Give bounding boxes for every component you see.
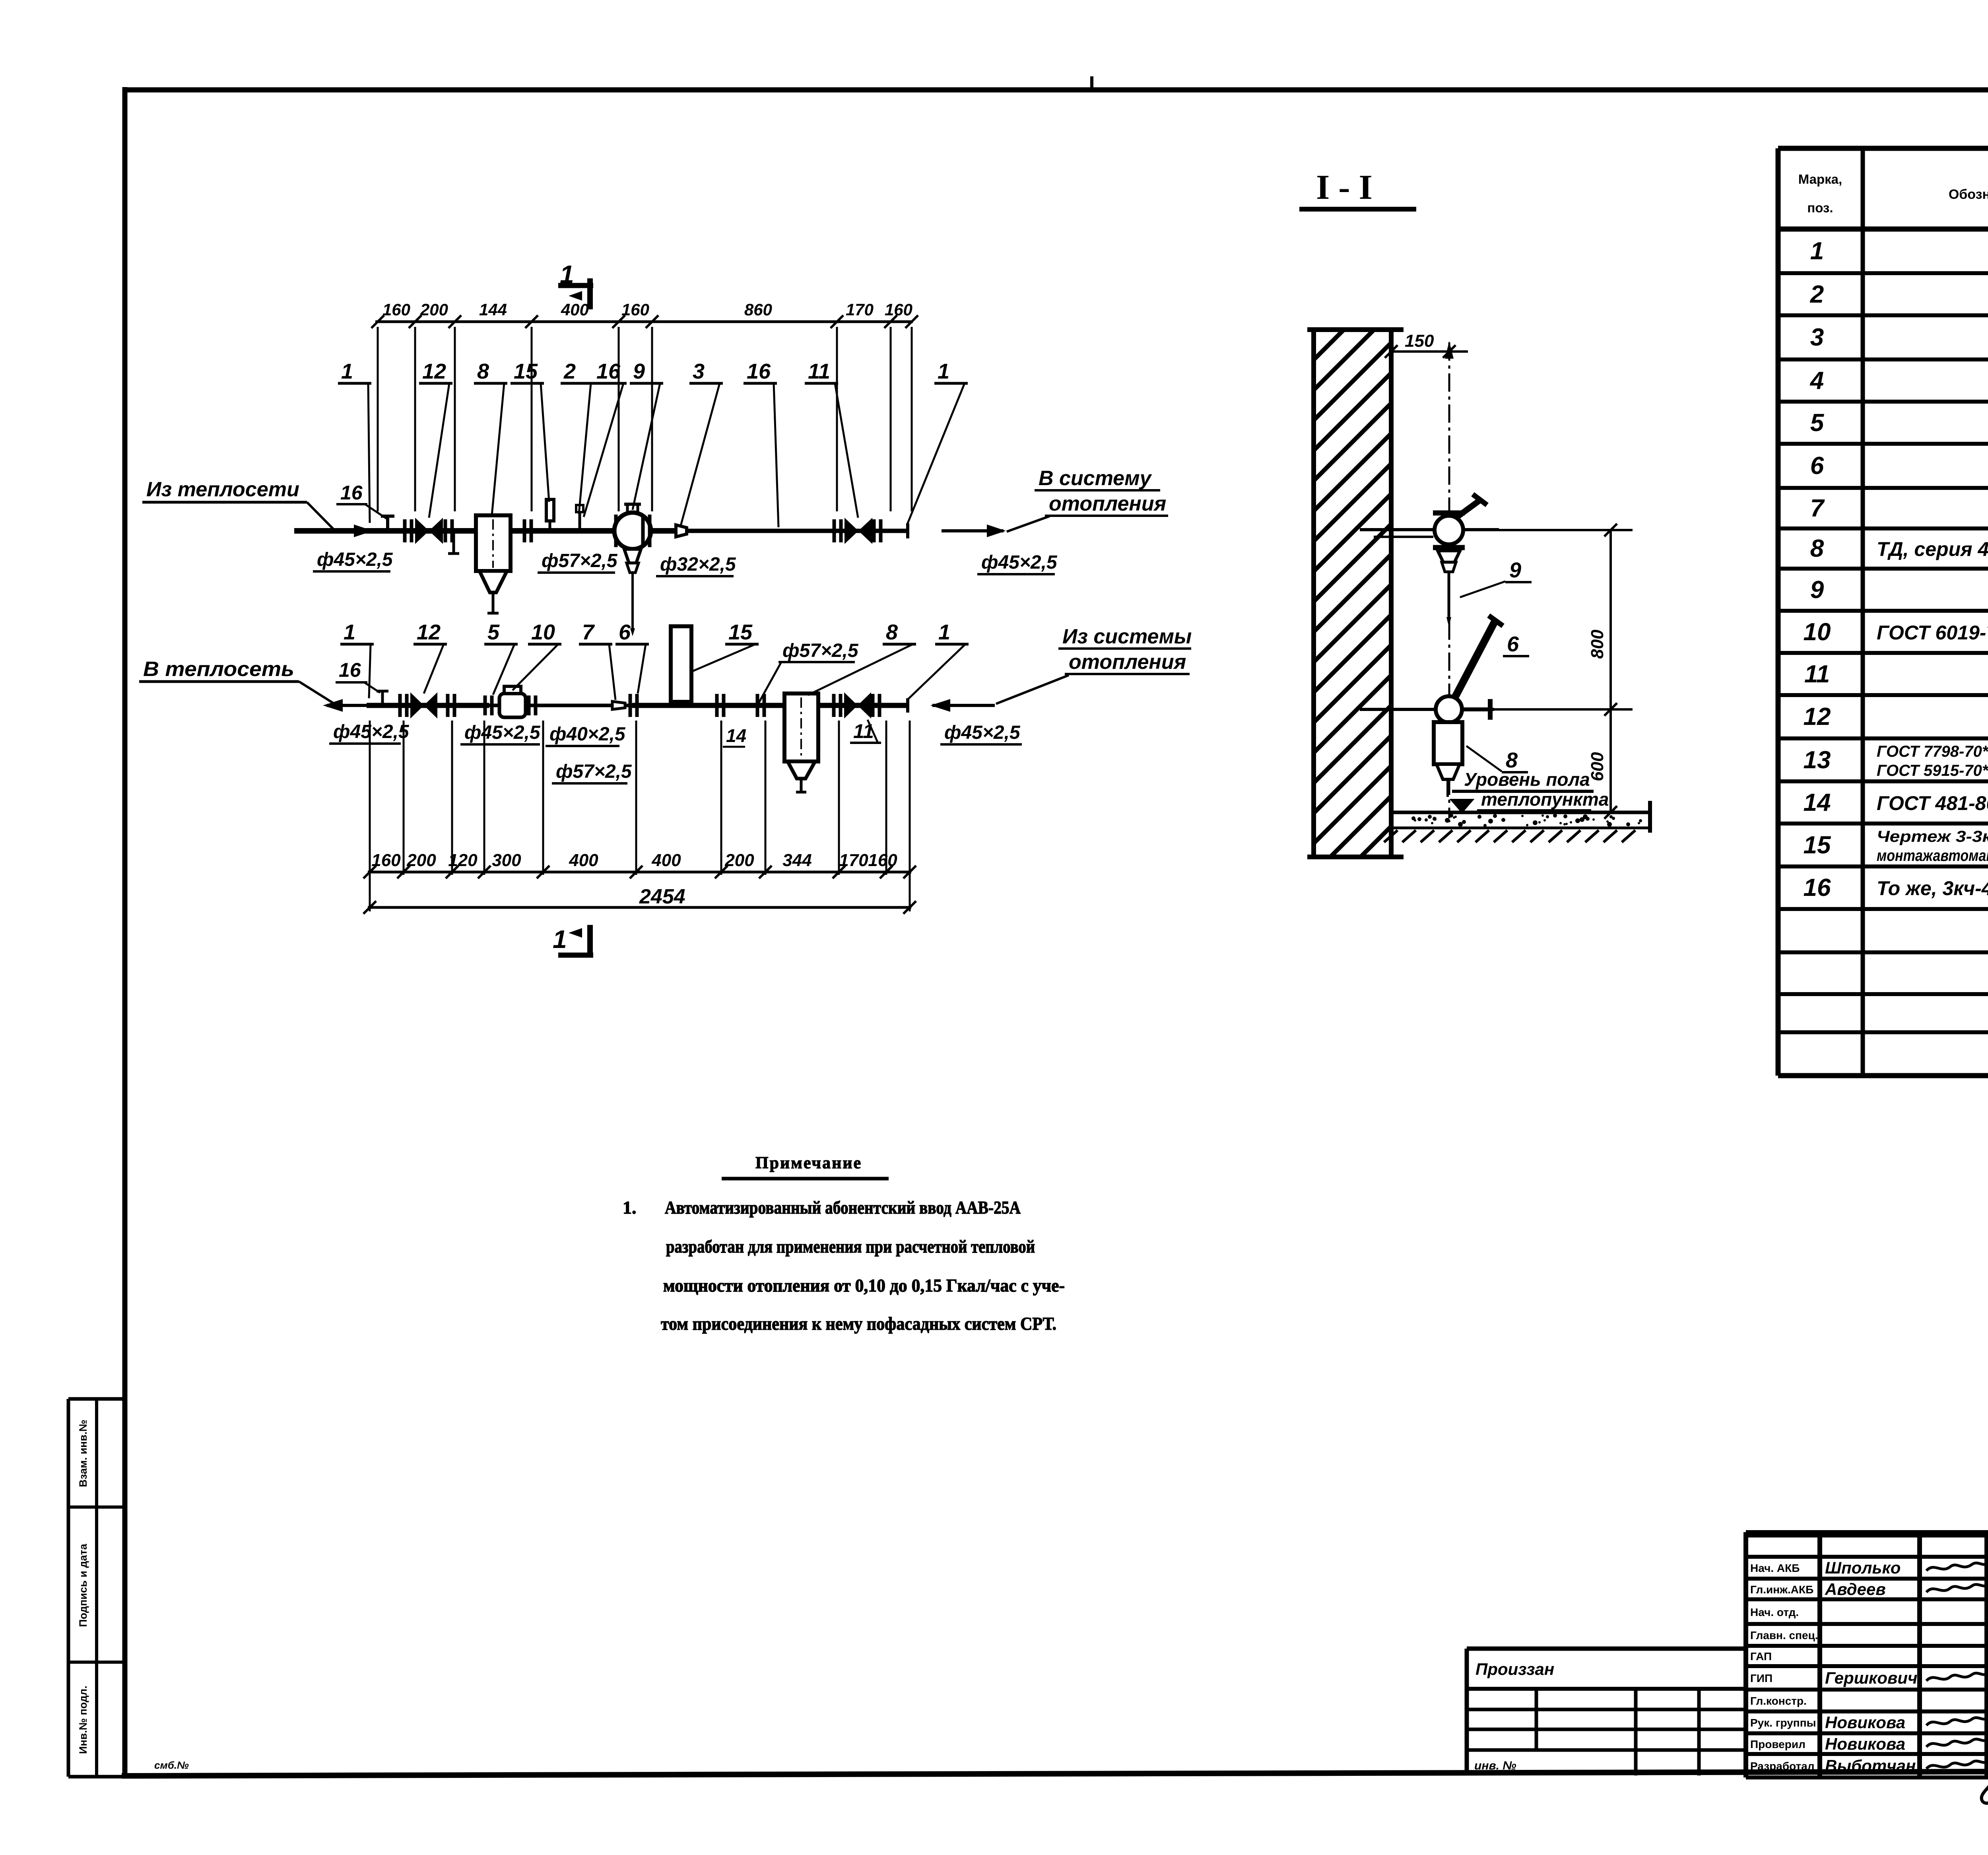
lower pipe end view line — [1360, 708, 1494, 711]
drawing sheet outer frame — [122, 87, 128, 1778]
svg-text:Произзан: Произзан — [1475, 1660, 1554, 1678]
svg-text:170: 170 — [846, 300, 874, 319]
svg-text:16: 16 — [1804, 874, 1831, 901]
svg-text:150: 150 — [1405, 331, 1434, 351]
svg-text:200: 200 — [406, 851, 436, 870]
svg-text:8: 8 — [886, 620, 898, 644]
svg-text:Нач. отд.: Нач. отд. — [1750, 1606, 1799, 1618]
svg-text:7: 7 — [1810, 495, 1825, 522]
svg-text:Гл.инж.АКБ: Гл.инж.АКБ — [1750, 1583, 1813, 1596]
svg-text:300: 300 — [492, 851, 521, 870]
svg-text:разработан для применения при: разработан для применения при расчетной … — [666, 1236, 1035, 1257]
svg-text:10: 10 — [531, 620, 555, 644]
svg-text:ГАП: ГАП — [1750, 1650, 1772, 1663]
svg-text:Разработал: Разработал — [1750, 1760, 1815, 1772]
valve 12 on return pipe — [410, 692, 424, 719]
svg-text:ф40×2,5: ф40×2,5 — [549, 724, 626, 745]
svg-text:600: 600 — [1588, 752, 1607, 781]
svg-text:5: 5 — [1810, 409, 1825, 437]
svg-text:6: 6 — [619, 620, 631, 644]
dirt trap 8 on return pipe — [784, 693, 818, 761]
svg-text:160: 160 — [382, 300, 410, 319]
section upper valve 9 handle — [1456, 500, 1480, 518]
svg-text:В теплосеть: В теплосеть — [143, 658, 294, 681]
regulator sensor needle into return pipe — [631, 573, 634, 628]
flange pair — [641, 515, 645, 547]
svg-text:ф45×2,5: ф45×2,5 — [317, 549, 393, 570]
svg-text:Примечание: Примечание — [755, 1154, 862, 1172]
section upper valve 9 bottom cone and thermometer — [1438, 551, 1460, 562]
svg-text:400: 400 — [561, 300, 589, 319]
svg-text:То же, 3кч-46-70: То же, 3кч-46-70 — [1877, 877, 1988, 899]
svg-text:Обозначение: Обозначение — [1949, 187, 1988, 202]
svg-text:11: 11 — [853, 720, 874, 742]
svg-text:800: 800 — [1588, 629, 1607, 659]
svg-text:12: 12 — [1804, 703, 1831, 730]
tap fitting 16 on return pipe — [381, 691, 384, 705]
section lower valve body — [1436, 696, 1462, 723]
wall bottom line — [1307, 855, 1404, 859]
upper pipe end view line — [1360, 528, 1499, 531]
svg-text:отопления: отопления — [1069, 651, 1186, 674]
section upper valve 9 body — [1435, 516, 1463, 544]
svg-text:400: 400 — [569, 851, 598, 870]
section vertical centerline — [1448, 342, 1450, 818]
specification table grid — [1776, 148, 1781, 1076]
svg-text:смб.№: смб.№ — [154, 1759, 189, 1771]
svg-text:монтажавтоматика ММСС ССР: монтажавтоматика ММСС ССР — [1877, 847, 1988, 864]
svg-text:1: 1 — [553, 925, 567, 954]
thermometer pocket 15 on supply pipe — [546, 499, 554, 521]
svg-text:14: 14 — [726, 725, 746, 746]
thermowell embedded part on return pipe — [671, 626, 691, 702]
section right dimension line — [1609, 530, 1612, 812]
svg-text:12: 12 — [417, 620, 441, 644]
floor slab with speckles — [1391, 811, 1649, 814]
svg-text:ГОСТ 6019-73*: ГОСТ 6019-73* — [1877, 622, 1988, 644]
svg-text:15: 15 — [728, 620, 753, 644]
svg-text:Инв.№ подл.: Инв.№ подл. — [77, 1686, 89, 1754]
svg-text:16: 16 — [747, 359, 771, 383]
svg-text:Гл.констр.: Гл.констр. — [1750, 1695, 1807, 1707]
svg-text:8: 8 — [1506, 748, 1518, 772]
svg-text:поз.: поз. — [1807, 200, 1833, 215]
svg-text:15: 15 — [514, 359, 538, 383]
svg-text:1: 1 — [938, 359, 949, 383]
flow arrow on supply pipe — [354, 524, 373, 537]
svg-text:I - I: I - I — [1316, 168, 1373, 207]
regulator 9 body — [614, 513, 651, 549]
svg-text:160: 160 — [371, 851, 401, 870]
svg-text:6: 6 — [1810, 452, 1824, 480]
valve 12 on supply pipe — [415, 518, 429, 544]
svg-text:Новикова: Новикова — [1825, 1735, 1905, 1753]
svg-text:ф45×2,5: ф45×2,5 — [464, 722, 541, 743]
svg-text:Чертеж 3-3кч-3-75 Глав-: Чертеж 3-3кч-3-75 Глав- — [1877, 828, 1988, 845]
svg-text:2454: 2454 — [639, 885, 685, 908]
wall with hatching — [1314, 330, 1391, 857]
svg-text:120: 120 — [448, 851, 478, 870]
svg-text:11: 11 — [1804, 660, 1830, 688]
svg-text:Из теплосети: Из теплосети — [146, 478, 299, 501]
svg-text:ТД, серия 4.903-10: ТД, серия 4.903-10 — [1877, 538, 1988, 560]
tap fitting 16 on supply pipe — [386, 516, 389, 531]
signature tail below staff table — [1982, 1771, 1988, 1803]
flange pair — [629, 694, 632, 717]
regulator 9 RTK-2216 flanges — [614, 515, 618, 547]
flange pair — [523, 519, 526, 542]
svg-text:2: 2 — [1810, 281, 1824, 308]
svg-text:теплопункта: теплопункта — [1481, 789, 1609, 810]
svg-text:Рук. группы: Рук. группы — [1750, 1717, 1816, 1729]
svg-text:ГОСТ 7798-70*: ГОСТ 7798-70* — [1877, 743, 1988, 760]
svg-text:5: 5 — [487, 620, 500, 644]
approvals small table — [1467, 1647, 1746, 1651]
svg-text:Гершкович: Гершкович — [1825, 1669, 1918, 1687]
svg-text:Подпись и дата: Подпись и дата — [77, 1543, 89, 1627]
wall top overshoot line — [1307, 327, 1404, 332]
supply pipe main line — [294, 528, 676, 534]
svg-text:1: 1 — [938, 620, 950, 644]
flange pair — [756, 694, 759, 717]
svg-text:том присоединения к нему пофас: том присоединения к нему пофасадных сист… — [661, 1313, 1056, 1334]
svg-text:ф32×2,5: ф32×2,5 — [660, 554, 736, 575]
valve 11 flanges — [832, 694, 836, 717]
svg-text:170: 170 — [839, 851, 868, 870]
return pipe end cap — [906, 698, 909, 713]
drain tap below supply pipe — [452, 531, 455, 554]
svg-text:Автоматизированный абонентский: Автоматизированный абонентский ввод ААВ-… — [665, 1197, 1021, 1218]
svg-text:В систему: В систему — [1039, 467, 1153, 490]
svg-text:Проверил: Проверил — [1750, 1738, 1806, 1750]
title block staff table grid — [1743, 1532, 1748, 1777]
flange pair — [444, 519, 447, 542]
svg-text:ф45×2,5: ф45×2,5 — [981, 552, 1058, 573]
svg-text:200: 200 — [420, 300, 448, 319]
valve 11 on supply pipe — [845, 518, 858, 544]
svg-text:1.: 1. — [623, 1197, 637, 1218]
dirt trap 8 (gryazevik) on supply pipe — [476, 515, 511, 571]
svg-text:11: 11 — [808, 359, 830, 383]
svg-text:Новикова: Новикова — [1825, 1713, 1905, 1732]
water meter outlet flanges — [527, 695, 531, 715]
sampling tap 2 on supply pipe — [579, 512, 581, 531]
svg-text:7: 7 — [582, 620, 595, 644]
water meter 10 flanges — [483, 695, 487, 715]
svg-text:144: 144 — [479, 300, 507, 319]
inlet arrow from heating system — [932, 704, 995, 707]
flange pair — [872, 519, 876, 542]
svg-text:3: 3 — [693, 359, 705, 383]
svg-text:инв. №: инв. № — [1474, 1759, 1516, 1772]
svg-text:Выботчан: Выботчан — [1825, 1756, 1916, 1775]
svg-text:ГОСТ 481-80*: ГОСТ 481-80* — [1877, 792, 1988, 814]
flange pair — [403, 519, 407, 542]
leader line to supply pipe — [307, 502, 333, 529]
svg-text:Марка,: Марка, — [1798, 172, 1842, 186]
svg-text:ф45×2,5: ф45×2,5 — [333, 721, 410, 742]
svg-text:1: 1 — [1810, 237, 1824, 265]
svg-text:Нач. АКБ: Нач. АКБ — [1750, 1562, 1800, 1574]
svg-text:15: 15 — [1804, 831, 1831, 859]
svg-text:ГОСТ 5915-70*: ГОСТ 5915-70* — [1877, 762, 1988, 779]
outlet arrow to heating system — [942, 529, 1004, 532]
flange pair — [833, 519, 836, 542]
svg-text:10: 10 — [1804, 618, 1831, 646]
svg-text:1: 1 — [341, 359, 353, 383]
svg-text:9: 9 — [1810, 576, 1824, 604]
svg-text:Шполько: Шполько — [1825, 1558, 1901, 1577]
svg-text:13: 13 — [1804, 746, 1831, 774]
svg-text:ф57×2,5: ф57×2,5 — [556, 761, 632, 782]
leader line to return pipe — [299, 682, 333, 703]
svg-text:16: 16 — [340, 482, 363, 504]
svg-text:344: 344 — [782, 851, 812, 870]
svg-text:16: 16 — [596, 359, 621, 383]
section lower valve T handle — [1461, 707, 1490, 711]
supply pipe end cap — [906, 523, 909, 538]
svg-text:14: 14 — [1804, 789, 1831, 816]
svg-text:860: 860 — [744, 300, 772, 319]
flange pair — [715, 694, 719, 717]
section upper valve 9 flanges — [1433, 511, 1465, 516]
floor right end tick — [1648, 801, 1652, 833]
floor level mark triangle — [1452, 800, 1472, 812]
svg-text:3: 3 — [1810, 324, 1824, 351]
svg-text:12: 12 — [422, 359, 446, 383]
svg-text:9: 9 — [633, 359, 645, 383]
svg-text:4: 4 — [1809, 367, 1824, 394]
svg-text:160: 160 — [621, 300, 649, 319]
regulator handle lever 6 in section — [1454, 621, 1495, 699]
water meter 10 body — [499, 693, 526, 717]
svg-text:Из системы: Из системы — [1062, 625, 1192, 648]
reducer on return pipe — [612, 701, 625, 709]
flange pair — [871, 694, 875, 717]
section dirt trap body below valve — [1434, 722, 1462, 764]
svg-text:Уровень пола: Уровень пола — [1464, 769, 1590, 790]
svg-text:160: 160 — [868, 851, 897, 870]
svg-text:ф57×2,5: ф57×2,5 — [782, 640, 859, 661]
svg-text:отопления: отопления — [1049, 492, 1166, 515]
left margin strip boxes — [68, 1397, 125, 1401]
dimension 150 wall to pipe axis — [1391, 350, 1468, 353]
svg-text:9: 9 — [1509, 558, 1521, 582]
svg-text:ф45×2,5: ф45×2,5 — [944, 722, 1021, 743]
flange pair — [446, 694, 450, 717]
svg-text:1: 1 — [344, 620, 355, 644]
svg-text:ГИП: ГИП — [1750, 1672, 1773, 1684]
svg-text:2: 2 — [563, 359, 576, 383]
svg-text:400: 400 — [651, 851, 681, 870]
svg-text:Авдеев: Авдеев — [1825, 1580, 1886, 1599]
reducer 3 on supply pipe — [676, 525, 687, 537]
svg-text:Взам. инв.№: Взам. инв.№ — [77, 1420, 89, 1487]
svg-text:ф57×2,5: ф57×2,5 — [542, 550, 618, 571]
svg-text:8: 8 — [1810, 535, 1824, 562]
upper dimension line — [375, 320, 913, 323]
return flow arrow to network — [327, 704, 367, 707]
valve 11 on return pipe — [844, 692, 858, 719]
top edge centre tick — [1090, 76, 1093, 92]
svg-text:Главн. спец.: Главн. спец. — [1750, 1629, 1818, 1641]
flange pair — [398, 694, 402, 717]
svg-text:160: 160 — [885, 300, 912, 319]
svg-text:6: 6 — [1507, 632, 1519, 656]
return pipe main line — [367, 703, 489, 708]
svg-text:200: 200 — [724, 851, 754, 870]
svg-text:8: 8 — [477, 359, 489, 383]
overall dimension 2454 — [369, 875, 371, 911]
lower dimension lines — [369, 721, 371, 875]
svg-text:мощности отопления от 0,10 до: мощности отопления от 0,10 до 0,15 Гкал/… — [663, 1275, 1065, 1296]
ground hatching under floor — [1384, 830, 1398, 842]
svg-text:16: 16 — [339, 659, 361, 681]
